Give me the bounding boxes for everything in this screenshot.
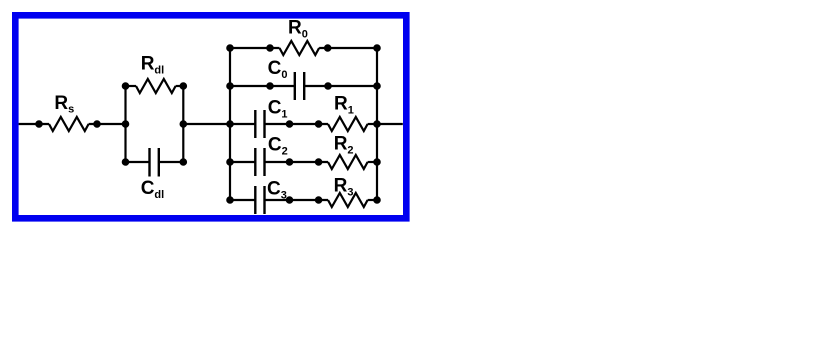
capacitor C1 left plate: [254, 110, 256, 138]
capacitor C1 right plate: [263, 110, 265, 138]
capacitor C3 left plate: [254, 186, 256, 214]
capacitor C0 right plate: [303, 72, 305, 100]
wire row3 middle: [265, 123, 329, 125]
node dot row2 right: [325, 83, 330, 88]
wire row5 left: [230, 199, 255, 201]
wire Rdl-block left bus: [124, 86, 126, 162]
wire row1 left: [230, 47, 280, 49]
wire row1 right: [319, 47, 377, 49]
wire Cdl bottom rail right lead: [159, 161, 184, 163]
node dot row5 mid1: [287, 197, 292, 202]
resistor Rdl: [136, 79, 176, 93]
node dot row4 mid2: [316, 159, 321, 164]
node dot row1 left: [267, 45, 272, 50]
node input dot: [36, 121, 41, 126]
node dots Rdl block corners and mid: [123, 83, 128, 88]
wire Rdl top rail right lead: [176, 85, 184, 87]
resistor R1: [328, 117, 368, 131]
node dot row4 mid1: [287, 159, 292, 164]
node dot row2 left: [267, 83, 272, 88]
node dot row3 mid1: [287, 121, 292, 126]
wire output right: [377, 123, 403, 125]
wire row5 right: [368, 199, 377, 201]
capacitor C0 left plate: [294, 72, 296, 100]
wire row3 left: [230, 123, 255, 125]
resistor R2: [328, 155, 368, 169]
wire row2 right: [304, 85, 377, 87]
wire Rdl top rail left lead: [126, 85, 137, 87]
blue border frame: [15, 15, 406, 218]
wire row2 left: [230, 85, 295, 87]
wire row4 left: [230, 161, 255, 163]
node dots row1 bus corners: [227, 45, 232, 50]
capacitor Cdl right plate: [158, 148, 160, 177]
wire row3 right: [368, 123, 377, 125]
node dot row5 mid2: [316, 197, 321, 202]
node dots row4 bus: [227, 159, 232, 164]
wire row4 right: [368, 161, 377, 163]
node dots row5 bus: [227, 197, 232, 202]
node dot row1 right: [325, 45, 330, 50]
wire ladder left bus: [229, 48, 231, 200]
resistor Rs: [49, 117, 89, 131]
wire Rdl block to ladder: [183, 123, 230, 125]
wire input left: [19, 123, 49, 125]
capacitor C3 right plate: [263, 186, 265, 214]
node dot after Rs: [94, 121, 99, 126]
wire Cdl bottom rail left lead: [126, 161, 150, 163]
wire ladder right bus: [376, 48, 378, 200]
node dots row3 bus: [227, 121, 232, 126]
capacitor Cdl left plate: [148, 148, 150, 177]
capacitor C2 left plate: [254, 148, 256, 176]
node dot row3 mid2: [316, 121, 321, 126]
wire Rs to Rdl block: [89, 123, 126, 125]
capacitor C2 right plate: [263, 148, 265, 176]
node dots row2 bus: [227, 83, 232, 88]
wire row4 middle: [265, 161, 329, 163]
wire row5 middle: [265, 199, 329, 201]
resistor R3: [328, 193, 368, 207]
wire Rdl-block right bus: [182, 86, 184, 162]
resistor R0: [280, 41, 320, 55]
